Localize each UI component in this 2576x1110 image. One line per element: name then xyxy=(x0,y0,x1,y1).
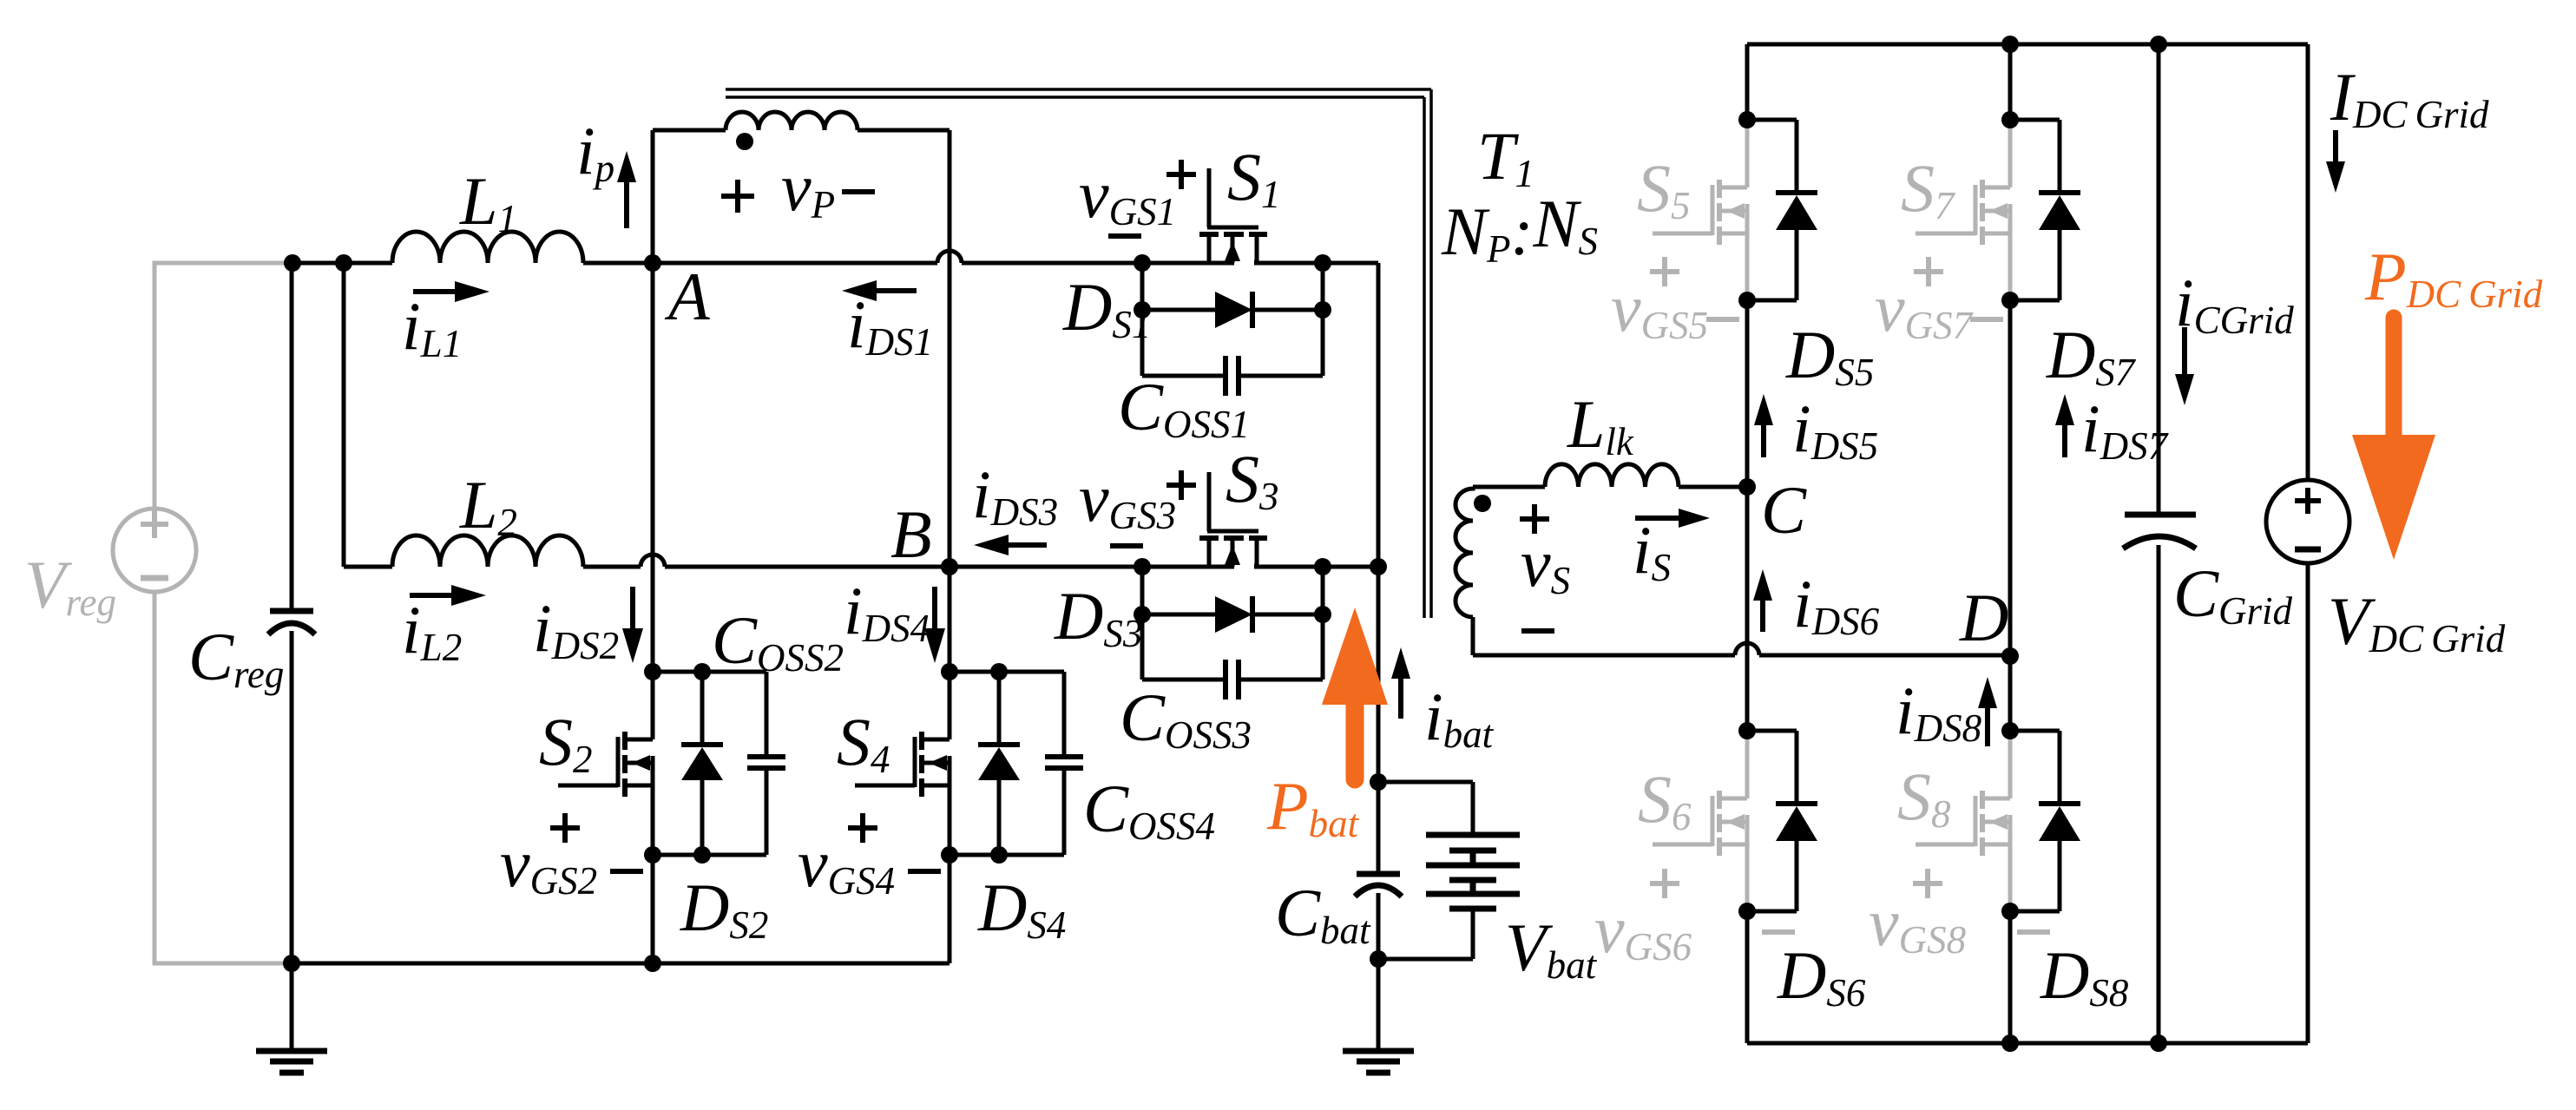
current arrow ibat xyxy=(1391,647,1410,719)
label COSS3 xyxy=(1120,680,1252,757)
current arrow iS xyxy=(1635,509,1710,528)
label iDS3 xyxy=(972,456,1058,534)
wire xyxy=(1745,487,1750,731)
wire xyxy=(1679,485,1747,489)
svg-text:vS: vS xyxy=(1521,525,1570,602)
wire xyxy=(948,130,952,567)
label vGS4 minus xyxy=(908,869,941,874)
label ip xyxy=(576,113,614,190)
wire xyxy=(1323,565,1378,569)
wire xyxy=(2008,44,2013,120)
label PDCGrid xyxy=(2364,239,2543,316)
label vGS3 plus xyxy=(1166,470,1196,500)
node xyxy=(1134,301,1151,319)
node xyxy=(990,663,1008,680)
svg-text:COSS3: COSS3 xyxy=(1120,680,1252,757)
svg-text:COSS4: COSS4 xyxy=(1083,771,1215,848)
current arrow iDS2 xyxy=(622,587,643,663)
wire xyxy=(1378,782,1473,833)
node xyxy=(1134,254,1151,272)
svg-text:Vbat: Vbat xyxy=(1505,910,1598,987)
label S1 xyxy=(1227,139,1281,216)
label Vbat xyxy=(1505,910,1598,987)
wire xyxy=(653,670,766,674)
wire xyxy=(948,567,952,672)
label DS8 xyxy=(2040,937,2128,1015)
svg-text:DS2: DS2 xyxy=(680,870,768,947)
wire xyxy=(2008,656,2013,731)
wire xyxy=(950,853,1064,857)
label vGS2 minus xyxy=(610,869,643,874)
label vGS7 minus xyxy=(1970,317,2003,322)
transistor S4 xyxy=(855,672,950,855)
current arrow iDS6 xyxy=(1753,569,1772,632)
wire xyxy=(154,592,292,963)
ground xyxy=(1343,959,1414,1073)
label vS plus xyxy=(1520,504,1549,534)
wire xyxy=(1377,782,1381,871)
node xyxy=(1314,606,1331,623)
svg-text:iL1: iL1 xyxy=(402,288,462,365)
svg-text:NP:NS: NP:NS xyxy=(1441,186,1598,271)
svg-text:ip: ip xyxy=(576,113,614,190)
inductor L2 xyxy=(392,535,583,567)
node xyxy=(1738,292,1756,309)
node xyxy=(1370,558,1387,575)
node xyxy=(1738,722,1756,739)
svg-text:vGS1: vGS1 xyxy=(1079,156,1176,233)
node xyxy=(693,663,711,680)
inductor L1 xyxy=(392,232,583,263)
wire xyxy=(342,263,346,567)
svg-text:vGS6: vGS6 xyxy=(1594,891,1692,969)
svg-text:D: D xyxy=(1959,580,2008,655)
current arrow iL2 xyxy=(410,585,486,606)
label vGS7 xyxy=(1875,270,1975,347)
node xyxy=(2150,1034,2167,1052)
current arrow iDS7 xyxy=(2055,394,2074,457)
wire xyxy=(962,261,1142,266)
power arrow Pbat xyxy=(1322,608,1388,779)
label CGrid xyxy=(2173,555,2293,633)
node xyxy=(1134,606,1151,623)
label Pbat xyxy=(1266,768,1360,845)
svg-text:S1: S1 xyxy=(1227,139,1281,216)
wire crossing hop xyxy=(1735,643,1759,655)
label iDS2 xyxy=(533,590,619,667)
svg-text:iDS5: iDS5 xyxy=(1792,391,1878,468)
capacitor Cbat xyxy=(1355,874,1402,897)
label iCGrid xyxy=(2175,265,2294,342)
label B xyxy=(890,496,932,572)
wire xyxy=(1321,567,1325,680)
current arrow IDCGrid xyxy=(2326,130,2345,193)
label iDS6 xyxy=(1793,566,1880,643)
svg-text:vGS2: vGS2 xyxy=(500,825,597,903)
wire xyxy=(1377,567,1381,782)
label vGS4 xyxy=(798,825,895,903)
label VDCGrid xyxy=(2328,583,2506,660)
transistor S8 xyxy=(1916,731,2010,914)
wire xyxy=(583,565,641,569)
wire xyxy=(653,261,937,266)
node xyxy=(2001,36,2019,53)
node xyxy=(990,846,1008,864)
node xyxy=(1314,254,1331,272)
node xyxy=(1370,773,1387,791)
label iL1 xyxy=(402,288,462,365)
svg-text:CGrid: CGrid xyxy=(2173,555,2293,633)
wire xyxy=(1321,263,1325,376)
wire xyxy=(2157,44,2161,512)
wire xyxy=(1745,300,1750,487)
label S6 xyxy=(1638,761,1692,838)
battery Vbat xyxy=(1426,835,1520,909)
svg-text:iDS6: iDS6 xyxy=(1793,566,1880,643)
wire xyxy=(653,853,766,857)
transistor S2 xyxy=(558,672,653,855)
node xyxy=(1314,301,1331,319)
node xyxy=(335,254,352,272)
label vGS4 plus xyxy=(848,813,877,843)
label vGS1 plus xyxy=(1166,160,1196,189)
svg-text:S4: S4 xyxy=(837,704,890,781)
svg-text:DS5: DS5 xyxy=(1785,317,1874,394)
label vGS6 minus xyxy=(1762,929,1795,935)
svg-text:S8: S8 xyxy=(1897,759,1951,836)
wire xyxy=(1377,263,1381,567)
svg-text:iDS4: iDS4 xyxy=(844,573,930,650)
wire xyxy=(1745,911,1750,1043)
svg-text:vGS7: vGS7 xyxy=(1875,270,1975,347)
wire xyxy=(1747,1041,2308,1046)
label vGS6 xyxy=(1594,891,1692,969)
wire xyxy=(154,263,292,509)
svg-text:IDC Grid: IDC Grid xyxy=(2330,59,2489,136)
svg-text:DS4: DS4 xyxy=(977,870,1066,947)
label iS xyxy=(1633,512,1671,589)
wire xyxy=(292,261,392,266)
current arrow ip xyxy=(617,151,636,228)
svg-text:iS: iS xyxy=(1633,512,1671,589)
current arrow iCGrid xyxy=(2175,327,2194,405)
svg-text:A: A xyxy=(664,259,710,334)
svg-text:DS6: DS6 xyxy=(1777,937,1866,1015)
svg-text:iDS3: iDS3 xyxy=(972,456,1058,534)
svg-text:S5: S5 xyxy=(1637,150,1691,227)
wire xyxy=(2306,563,2310,1043)
label COSS2 xyxy=(712,602,844,680)
node xyxy=(2150,36,2167,53)
current arrow iL1 xyxy=(413,281,490,302)
node C xyxy=(1738,478,1756,496)
wire crossing hop xyxy=(937,251,962,263)
svg-text:vGS4: vGS4 xyxy=(798,825,895,903)
node xyxy=(2001,903,2019,920)
node xyxy=(644,955,661,972)
transistor S7 xyxy=(1916,120,2010,303)
svg-text:vGS8: vGS8 xyxy=(1869,884,1966,962)
transistor S1 xyxy=(1142,168,1323,263)
svg-text:iDS1: iDS1 xyxy=(847,286,933,364)
current arrow iDS8 xyxy=(1978,677,1997,746)
node xyxy=(1134,558,1151,575)
svg-text:iCGrid: iCGrid xyxy=(2175,265,2294,342)
label vGS2 plus xyxy=(550,813,580,843)
wire xyxy=(1759,654,2010,658)
label DS6 xyxy=(1777,937,1866,1015)
node B xyxy=(941,558,958,575)
svg-text:DS7: DS7 xyxy=(2046,317,2137,394)
label vGS5 minus xyxy=(1706,317,1739,322)
transformer core xyxy=(726,89,1431,618)
label COSS4 xyxy=(1083,771,1215,848)
wire xyxy=(1747,43,2308,47)
wire xyxy=(1323,261,1378,266)
svg-text:L1: L1 xyxy=(459,163,517,240)
transistor S3 xyxy=(1142,472,1323,567)
diode DS6 xyxy=(1747,731,1817,911)
wire xyxy=(292,962,950,966)
svg-text:iDS7: iDS7 xyxy=(2081,391,2170,468)
wire xyxy=(2306,44,2310,480)
label S8 xyxy=(1897,759,1951,836)
node xyxy=(693,846,711,864)
label Llk xyxy=(1567,386,1634,463)
label S4 xyxy=(837,704,890,781)
diode DS1 xyxy=(1142,292,1323,328)
node xyxy=(1738,111,1756,128)
node xyxy=(2001,111,2019,128)
inductor Llk xyxy=(1545,464,1679,487)
label ibat xyxy=(1424,679,1495,756)
wire xyxy=(583,261,653,266)
wire xyxy=(665,565,950,569)
wire xyxy=(948,855,952,963)
svg-text:PDC Grid: PDC Grid xyxy=(2364,239,2543,316)
diode DS4 xyxy=(978,672,1020,855)
svg-text:T1: T1 xyxy=(1477,118,1534,195)
label S2 xyxy=(539,704,593,781)
node xyxy=(284,254,301,272)
wire xyxy=(950,670,1064,674)
label S3 xyxy=(1226,441,1279,518)
svg-text:vP: vP xyxy=(781,149,835,227)
current arrow iDS1 xyxy=(842,280,917,301)
node D xyxy=(2001,647,2019,665)
node xyxy=(283,955,300,972)
label vP polarity plus xyxy=(721,180,754,213)
node xyxy=(941,846,958,864)
node xyxy=(1738,903,1756,920)
diode DS3 xyxy=(1142,596,1323,633)
label DS1 xyxy=(1062,269,1151,346)
label iL2 xyxy=(402,592,462,669)
diode DS8 xyxy=(2010,731,2080,911)
transistor S5 xyxy=(1653,120,1747,303)
label vS minus xyxy=(1521,628,1554,634)
current arrow iDS3 xyxy=(974,535,1047,555)
wire xyxy=(1140,263,1145,376)
svg-text:DS8: DS8 xyxy=(2040,937,2128,1015)
capacitor COSS2 xyxy=(747,672,785,855)
transistor S6 xyxy=(1653,731,1747,914)
label vGS2 xyxy=(500,825,597,903)
node xyxy=(644,663,661,680)
label vP polarity minus xyxy=(842,189,875,194)
wire xyxy=(1473,654,1735,658)
label Creg xyxy=(188,619,284,696)
label DS5 xyxy=(1785,317,1874,394)
label vS xyxy=(1521,525,1570,602)
svg-text:DS3: DS3 xyxy=(1054,578,1142,655)
label vGS5 plus xyxy=(1650,257,1679,286)
svg-text:S2: S2 xyxy=(539,704,593,781)
label S7 xyxy=(1901,150,1956,227)
diode DS2 xyxy=(681,672,723,855)
label S5 xyxy=(1637,150,1691,227)
wire xyxy=(651,855,655,963)
voltage source VDCGrid xyxy=(2266,480,2349,563)
label vGS3 minus xyxy=(1110,543,1143,548)
wire xyxy=(1140,567,1145,680)
svg-text:ibat: ibat xyxy=(1424,679,1495,756)
label NP:NS xyxy=(1441,186,1598,271)
label vGS8 xyxy=(1869,884,1966,962)
wire xyxy=(950,565,1142,569)
svg-text:VDC Grid: VDC Grid xyxy=(2328,583,2506,660)
label DS7 xyxy=(2046,317,2137,394)
transformer T1 primary xyxy=(653,112,950,150)
label A xyxy=(664,259,710,334)
diode DS5 xyxy=(1747,120,1817,300)
svg-text:S3: S3 xyxy=(1226,441,1279,518)
label DS4 xyxy=(977,870,1066,947)
capacitor COSS1 xyxy=(1142,356,1323,396)
node xyxy=(2001,1034,2019,1052)
label iDS5 xyxy=(1792,391,1878,468)
node xyxy=(2001,722,2019,739)
label L1 xyxy=(459,163,517,240)
transformer T1 secondary xyxy=(1456,487,1491,655)
svg-text:Llk: Llk xyxy=(1567,386,1634,463)
label vGS8 plus xyxy=(1913,869,1942,898)
svg-text:L2: L2 xyxy=(459,467,517,544)
node A xyxy=(644,254,661,272)
label D xyxy=(1959,580,2008,655)
voltage source Vreg xyxy=(113,509,196,592)
svg-text:iDS8: iDS8 xyxy=(1896,673,1981,750)
wire xyxy=(1473,485,1545,489)
wire xyxy=(1377,893,1381,959)
svg-text:B: B xyxy=(890,496,932,572)
wire crossing hop xyxy=(641,555,665,567)
svg-text:iDS2: iDS2 xyxy=(533,590,619,667)
svg-text:C: C xyxy=(1761,472,1807,548)
label iDS4 xyxy=(844,573,930,650)
label vGS7 plus xyxy=(1914,257,1943,286)
label iDS7 xyxy=(2081,391,2170,468)
label vGS1 minus xyxy=(1108,233,1141,239)
wire xyxy=(290,631,294,963)
diode DS7 xyxy=(2010,120,2080,300)
current arrow iDS5 xyxy=(1754,394,1773,457)
svg-text:vGS3: vGS3 xyxy=(1079,460,1176,537)
capacitor COSS4 xyxy=(1045,672,1083,855)
wire xyxy=(651,130,655,263)
svg-text:COSS2: COSS2 xyxy=(712,602,844,680)
current arrow iDS4 xyxy=(924,587,945,663)
label vGS3 xyxy=(1079,460,1176,537)
label L2 xyxy=(459,467,517,544)
wire xyxy=(2008,300,2013,656)
svg-text:COSS1: COSS1 xyxy=(1118,369,1250,446)
svg-text:S6: S6 xyxy=(1638,761,1692,838)
label vGS6 plus xyxy=(1650,869,1679,898)
node xyxy=(1370,950,1387,968)
label DS2 xyxy=(680,870,768,947)
power arrow PDCGrid xyxy=(2352,318,2435,560)
capacitor COSS3 xyxy=(1142,660,1323,699)
wire xyxy=(2008,911,2013,1043)
svg-text:Cbat: Cbat xyxy=(1275,875,1371,952)
node xyxy=(644,846,661,864)
label Cbat xyxy=(1275,875,1371,952)
label vP xyxy=(781,149,835,227)
svg-text:Vreg: Vreg xyxy=(24,547,116,624)
wire xyxy=(1745,44,1750,120)
capacitor CGrid xyxy=(2123,515,2196,548)
label T1 xyxy=(1477,118,1534,195)
label COSS1 xyxy=(1118,369,1250,446)
label IDCGrid xyxy=(2330,59,2489,136)
label DS3 xyxy=(1054,578,1142,655)
label iDS8 xyxy=(1896,673,1981,750)
wire xyxy=(2157,545,2161,1043)
wire xyxy=(1378,911,1473,959)
svg-text:vGS5: vGS5 xyxy=(1611,270,1708,347)
wire xyxy=(290,263,294,609)
label C xyxy=(1761,472,1807,548)
node xyxy=(2001,292,2019,309)
ground xyxy=(256,963,327,1073)
node xyxy=(1314,558,1331,575)
label vGS8 minus xyxy=(2017,929,2050,935)
label Vreg xyxy=(24,547,116,624)
node xyxy=(941,663,958,680)
wire xyxy=(344,565,392,569)
capacitor Creg xyxy=(268,611,315,634)
svg-text:S7: S7 xyxy=(1901,150,1956,227)
label iDS1 xyxy=(847,286,933,364)
label vGS1 xyxy=(1079,156,1176,233)
wire xyxy=(651,263,655,672)
label vGS5 xyxy=(1611,270,1708,347)
